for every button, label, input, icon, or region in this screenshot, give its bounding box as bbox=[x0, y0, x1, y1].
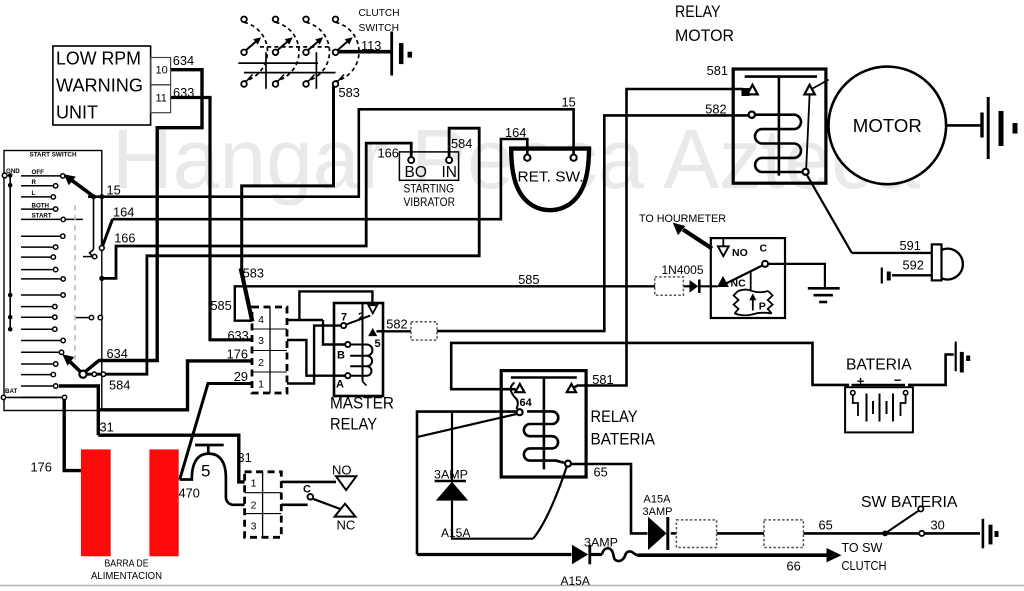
svg-text:LOW RPM: LOW RPM bbox=[56, 49, 141, 69]
svg-text:582: 582 bbox=[386, 316, 407, 331]
svg-text:65: 65 bbox=[819, 518, 833, 533]
svg-text:GND: GND bbox=[6, 168, 20, 175]
svg-text:634: 634 bbox=[107, 346, 128, 361]
svg-text:176: 176 bbox=[227, 346, 248, 361]
svg-text:ALIMENTACION: ALIMENTACION bbox=[91, 571, 162, 582]
svg-text:A: A bbox=[336, 379, 344, 391]
svg-text:5: 5 bbox=[201, 462, 210, 481]
svg-text:65: 65 bbox=[594, 465, 608, 480]
svg-text:164: 164 bbox=[505, 125, 526, 140]
svg-text:3AMP: 3AMP bbox=[434, 467, 468, 481]
svg-text:3AMP: 3AMP bbox=[584, 536, 618, 550]
svg-text:NO: NO bbox=[332, 462, 352, 477]
svg-text:1N4005: 1N4005 bbox=[662, 263, 704, 277]
svg-text:C: C bbox=[303, 483, 311, 495]
svg-text:STARTING: STARTING bbox=[404, 182, 455, 196]
svg-text:START: START bbox=[32, 213, 52, 220]
svg-text:2: 2 bbox=[258, 357, 264, 369]
svg-text:BATERIA: BATERIA bbox=[846, 357, 912, 374]
svg-text:A15A: A15A bbox=[644, 494, 672, 506]
svg-text:29: 29 bbox=[234, 369, 248, 384]
svg-text:166: 166 bbox=[114, 231, 135, 246]
svg-text:NC: NC bbox=[337, 517, 356, 532]
svg-text:L: L bbox=[32, 190, 36, 197]
svg-text:583: 583 bbox=[339, 85, 360, 100]
svg-text:584: 584 bbox=[451, 136, 472, 151]
svg-text:15: 15 bbox=[562, 95, 576, 110]
svg-text:CLUTCH: CLUTCH bbox=[359, 8, 400, 19]
svg-text:581: 581 bbox=[592, 372, 613, 387]
svg-text:C: C bbox=[760, 243, 768, 255]
svg-text:113: 113 bbox=[361, 38, 381, 53]
svg-text:BOTH: BOTH bbox=[32, 202, 50, 209]
svg-text:11: 11 bbox=[156, 93, 167, 105]
svg-text:RELAY: RELAY bbox=[330, 416, 377, 434]
svg-text:NC: NC bbox=[731, 277, 747, 289]
svg-text:582: 582 bbox=[705, 102, 726, 117]
svg-text:BO: BO bbox=[405, 164, 427, 181]
svg-text:TO HOURMETER: TO HOURMETER bbox=[639, 213, 726, 225]
svg-text:634: 634 bbox=[173, 53, 194, 68]
svg-text:3AMP: 3AMP bbox=[643, 506, 673, 518]
svg-text:RET. SW.: RET. SW. bbox=[518, 168, 584, 185]
svg-text:SWITCH: SWITCH bbox=[359, 23, 400, 34]
svg-text:5: 5 bbox=[374, 338, 380, 350]
svg-text:NO: NO bbox=[732, 247, 748, 259]
svg-text:2: 2 bbox=[251, 499, 257, 511]
svg-text:A15A: A15A bbox=[441, 526, 470, 540]
svg-text:592: 592 bbox=[903, 257, 924, 272]
svg-text:15: 15 bbox=[107, 183, 121, 198]
svg-text:CLUTCH: CLUTCH bbox=[842, 559, 887, 573]
svg-text:7: 7 bbox=[341, 312, 347, 324]
svg-text:3: 3 bbox=[258, 335, 264, 347]
svg-text:64: 64 bbox=[520, 397, 533, 409]
svg-text:176: 176 bbox=[31, 460, 52, 475]
svg-text:1: 1 bbox=[258, 379, 264, 391]
svg-text:BAT: BAT bbox=[5, 388, 17, 395]
svg-text:IN: IN bbox=[442, 164, 458, 181]
svg-text:RELAY: RELAY bbox=[591, 408, 638, 426]
svg-text:BARRA DE: BARRA DE bbox=[105, 559, 149, 570]
svg-text:31: 31 bbox=[238, 450, 252, 465]
svg-text:UNIT: UNIT bbox=[56, 103, 98, 123]
svg-text:633: 633 bbox=[227, 328, 248, 343]
svg-text:10: 10 bbox=[156, 65, 168, 77]
svg-text:31: 31 bbox=[100, 420, 114, 435]
svg-text:66: 66 bbox=[787, 559, 801, 574]
svg-text:4: 4 bbox=[258, 314, 264, 326]
svg-text:3: 3 bbox=[251, 521, 257, 533]
svg-text:MOTOR: MOTOR bbox=[853, 115, 922, 136]
svg-text:591: 591 bbox=[900, 238, 921, 253]
svg-text:581: 581 bbox=[707, 63, 728, 78]
svg-text:30: 30 bbox=[931, 518, 945, 533]
svg-text:164: 164 bbox=[113, 205, 134, 220]
svg-text:MOTOR: MOTOR bbox=[675, 27, 734, 45]
svg-text:470: 470 bbox=[179, 485, 200, 500]
svg-text:START SWITCH: START SWITCH bbox=[30, 151, 77, 158]
svg-text:A15A: A15A bbox=[561, 574, 590, 588]
svg-text:B: B bbox=[337, 350, 345, 362]
svg-text:585: 585 bbox=[210, 298, 231, 313]
svg-text:P: P bbox=[759, 301, 766, 313]
svg-text:TO SW: TO SW bbox=[842, 541, 883, 555]
svg-text:OFF: OFF bbox=[32, 169, 45, 176]
svg-text:584: 584 bbox=[109, 378, 130, 393]
svg-text:166: 166 bbox=[378, 145, 399, 160]
svg-text:633: 633 bbox=[173, 85, 194, 100]
svg-text:RELAY: RELAY bbox=[675, 3, 721, 21]
svg-text:1: 1 bbox=[251, 477, 257, 489]
svg-text:SW BATERIA: SW BATERIA bbox=[861, 494, 958, 511]
svg-text:VIBRATOR: VIBRATOR bbox=[404, 195, 456, 209]
svg-text:BATERIA: BATERIA bbox=[591, 431, 656, 449]
svg-text:WARNING: WARNING bbox=[56, 76, 143, 96]
svg-text:MASTER: MASTER bbox=[330, 395, 394, 413]
svg-text:2: 2 bbox=[358, 311, 364, 323]
svg-text:583: 583 bbox=[243, 265, 264, 280]
svg-text:585: 585 bbox=[518, 272, 539, 287]
svg-text:R: R bbox=[32, 179, 37, 186]
